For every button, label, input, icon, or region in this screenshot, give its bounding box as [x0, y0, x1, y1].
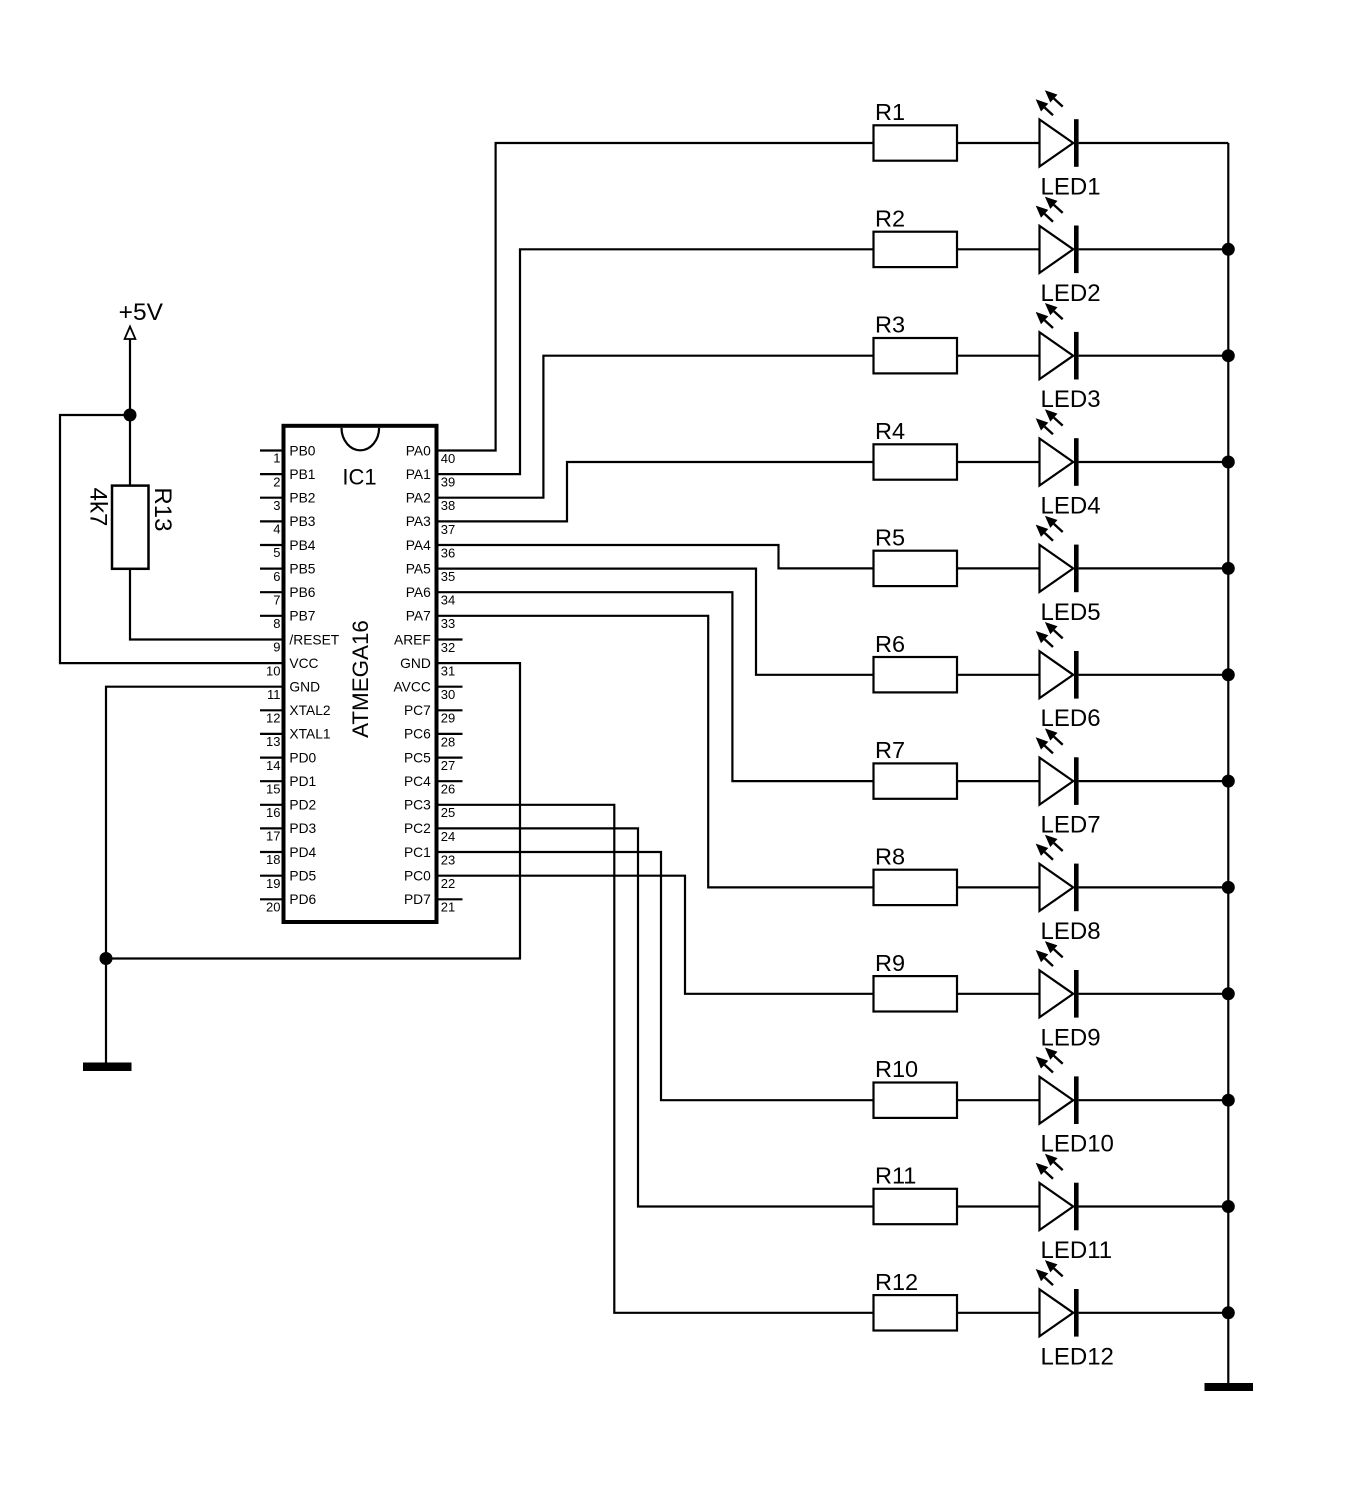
svg-text:24: 24	[441, 829, 455, 844]
IC1 pin 38 (PA2) stub, number and label	[406, 491, 456, 514]
node bus junction row 5	[1222, 562, 1235, 575]
svg-text:LED12: LED12	[1041, 1343, 1114, 1370]
IC1 pin 35 (PA5) stub, number and label	[406, 561, 456, 584]
wire R1 to LED1	[957, 142, 1040, 144]
LED LED2	[1036, 197, 1101, 307]
wire PA5 pin 35 to R6	[437, 569, 874, 675]
wire R8 to LED8	[957, 886, 1040, 888]
LED LED8	[1036, 835, 1101, 945]
svg-text:29: 29	[441, 711, 455, 726]
wire R13 bottom to /RESET pin 9	[130, 569, 284, 640]
svg-text:12: 12	[266, 711, 280, 726]
node bus junction row 6	[1222, 668, 1235, 681]
LED LED10	[1036, 1048, 1114, 1158]
wire R3 to LED3	[957, 355, 1040, 357]
resistor R8	[874, 843, 958, 905]
node bus junction row 2	[1222, 243, 1235, 256]
IC1 pin 16 (PD2) stub, number and label	[260, 798, 316, 820]
resistor R11	[874, 1163, 958, 1225]
IC1 pin 21 (PD7) stub, number and label	[404, 892, 463, 915]
svg-text:2: 2	[273, 474, 280, 489]
wire R9 to LED9	[957, 993, 1040, 995]
wire LED5 cathode to bus	[1079, 567, 1229, 569]
svg-text:R13: R13	[149, 487, 176, 531]
IC1 pin 18 (PD4) stub, number and label	[260, 845, 317, 867]
wire R12 to LED12	[957, 1312, 1040, 1314]
svg-text:13: 13	[266, 734, 280, 749]
IC1 pin 31 (GND) stub, number and label	[400, 656, 455, 679]
node +5V junction	[124, 409, 137, 422]
svg-text:PA3: PA3	[406, 514, 431, 529]
svg-text:15: 15	[266, 781, 280, 796]
wire LED4 cathode to bus	[1079, 461, 1229, 463]
svg-text:R8: R8	[875, 843, 905, 869]
IC IC1 (ATMEGA16) body with notch and labels	[284, 426, 437, 922]
svg-text:10: 10	[266, 663, 280, 678]
svg-text:18: 18	[266, 852, 280, 867]
wire LED10 cathode to bus	[1079, 1099, 1229, 1101]
wire GND pin 31 loop to ground junction	[106, 663, 520, 958]
IC1 pin 28 (PC6) stub, number and label	[404, 727, 463, 750]
IC1 pin 33 (PA7) stub, number and label	[406, 609, 456, 632]
svg-text:XTAL2: XTAL2	[289, 703, 330, 718]
wire PA3 pin 37 to R4	[437, 462, 874, 521]
svg-text:R3: R3	[875, 312, 905, 338]
svg-text:PB4: PB4	[289, 538, 315, 553]
svg-text:PD7: PD7	[404, 892, 431, 907]
svg-text:PC2: PC2	[404, 821, 431, 836]
IC1 pin 1 (PB0) stub, number and label	[260, 443, 316, 465]
wire PC3 pin 25 to R12	[437, 805, 874, 1313]
IC1 pin 15 (PD1) stub, number and label	[260, 774, 316, 796]
svg-text:LED4: LED4	[1041, 493, 1101, 520]
resistor R10	[874, 1056, 958, 1118]
node bus junction row 10	[1222, 1094, 1235, 1107]
svg-text:30: 30	[441, 687, 455, 702]
svg-text:PC7: PC7	[404, 703, 431, 718]
resistor R6	[874, 631, 958, 693]
resistor R5	[874, 524, 958, 586]
svg-text:R6: R6	[875, 631, 905, 657]
IC1 pin 4 (PB3) stub, number and label	[260, 514, 316, 536]
wire PA4 pin 36 to R5	[437, 545, 874, 568]
wire LED9 cathode to bus	[1079, 993, 1229, 995]
svg-text:R1: R1	[875, 99, 905, 125]
svg-text:PB2: PB2	[289, 491, 315, 506]
IC1 pin 12 (XTAL2) stub, number and label	[260, 703, 331, 725]
IC1 pin 25 (PC3) stub, number and label	[404, 798, 455, 821]
svg-text:LED5: LED5	[1041, 599, 1101, 626]
svg-text:PB7: PB7	[289, 609, 315, 624]
svg-text:PA0: PA0	[406, 443, 431, 458]
svg-text:LED2: LED2	[1041, 280, 1101, 307]
IC1 pin 26 (PC4) stub, number and label	[404, 774, 463, 797]
wire +5V to junction	[129, 339, 131, 415]
wire PA0 pin 40 to R1	[437, 143, 874, 451]
IC1 pin 36 (PA4) stub, number and label	[406, 538, 456, 561]
wire PC1 pin 23 to R10	[437, 852, 874, 1100]
svg-text:R7: R7	[875, 737, 905, 763]
svg-text:PA6: PA6	[406, 585, 431, 600]
svg-text:LED8: LED8	[1041, 918, 1101, 945]
svg-text:PD5: PD5	[289, 869, 316, 884]
IC1 pin 32 (AREF) stub, number and label	[394, 632, 462, 655]
svg-text:31: 31	[441, 664, 455, 679]
svg-text:LED3: LED3	[1041, 386, 1101, 413]
svg-text:36: 36	[441, 545, 455, 560]
svg-text:PB6: PB6	[289, 585, 315, 600]
svg-text:35: 35	[441, 569, 455, 584]
svg-text:28: 28	[441, 734, 455, 749]
svg-text:26: 26	[441, 782, 455, 797]
IC1 pin 20 (PD6) stub, number and label	[260, 892, 317, 914]
wire R2 to LED2	[957, 248, 1040, 250]
svg-text:R2: R2	[875, 205, 905, 231]
wire R6 to LED6	[957, 674, 1040, 676]
IC1 pin 24 (PC2) stub, number and label	[404, 821, 455, 844]
IC1 pin 10 (VCC) stub, number and label	[266, 656, 319, 678]
svg-text:23: 23	[441, 852, 455, 867]
svg-text:37: 37	[441, 522, 455, 537]
wire LED1 cathode to bus	[1079, 142, 1229, 144]
svg-text:PB3: PB3	[289, 514, 315, 529]
svg-text:R10: R10	[875, 1056, 918, 1082]
ground symbol right	[1205, 1383, 1254, 1391]
wire PC0 pin 22 to R9	[437, 876, 874, 994]
svg-text:19: 19	[266, 876, 280, 891]
svg-text:IC1: IC1	[342, 465, 376, 490]
wire GND pin 11 down to ground	[106, 687, 284, 1063]
IC1 pin 22 (PC0) stub, number and label	[404, 869, 455, 892]
svg-text:R11: R11	[875, 1163, 916, 1189]
node bus junction row 7	[1222, 775, 1235, 788]
svg-text:PA5: PA5	[406, 561, 431, 576]
svg-text:ATMEGA16: ATMEGA16	[348, 620, 373, 738]
svg-text:PD6: PD6	[289, 892, 316, 907]
wire LED7 cathode to bus	[1079, 780, 1229, 782]
resistor R2	[874, 205, 958, 267]
resistor R12	[874, 1269, 958, 1331]
node bus junction row 8	[1222, 881, 1235, 894]
svg-text:AVCC: AVCC	[393, 680, 430, 695]
svg-text:LED6: LED6	[1041, 705, 1101, 732]
svg-text:LED1: LED1	[1041, 174, 1101, 201]
svg-text:R12: R12	[875, 1269, 918, 1295]
svg-text:3: 3	[273, 498, 280, 513]
node bus junction row 12	[1222, 1306, 1235, 1319]
svg-text:PC5: PC5	[404, 750, 431, 765]
svg-text:PA4: PA4	[406, 538, 431, 553]
IC1 pin 3 (PB2) stub, number and label	[260, 491, 315, 513]
IC1 pin 34 (PA6) stub, number and label	[406, 585, 456, 608]
svg-text:LED9: LED9	[1041, 1024, 1101, 1051]
svg-text:25: 25	[441, 805, 455, 820]
IC1 pin 5 (PB4) stub, number and label	[260, 538, 316, 560]
wire PA1 pin 39 to R2	[437, 249, 874, 474]
svg-text:11: 11	[267, 687, 281, 702]
svg-text:40: 40	[441, 451, 455, 466]
IC1 pin 30 (AVCC) stub, number and label	[393, 680, 462, 703]
svg-text:PA7: PA7	[406, 609, 431, 624]
svg-text:PC0: PC0	[404, 869, 431, 884]
IC1 pin 37 (PA3) stub, number and label	[406, 514, 456, 537]
svg-text:17: 17	[266, 829, 280, 844]
LED LED12	[1036, 1260, 1114, 1370]
svg-text:PD0: PD0	[289, 750, 316, 765]
wire LED2 cathode to bus	[1079, 248, 1229, 250]
svg-text:GND: GND	[289, 680, 320, 695]
svg-text:PC1: PC1	[404, 845, 431, 860]
svg-text:PA2: PA2	[406, 491, 431, 506]
svg-text:27: 27	[441, 758, 455, 773]
LED LED11	[1036, 1154, 1112, 1264]
resistor R1	[874, 99, 958, 161]
svg-text:9: 9	[273, 640, 280, 655]
IC1 pin 29 (PC7) stub, number and label	[404, 703, 463, 726]
svg-text:R5: R5	[875, 524, 905, 550]
svg-text:4k7: 4k7	[85, 488, 112, 527]
+5V supply symbol	[119, 299, 164, 339]
resistor R9	[874, 950, 958, 1012]
wire PA2 pin 38 to R3	[437, 356, 874, 498]
wire R11 to LED11	[957, 1205, 1040, 1207]
svg-text:PC4: PC4	[404, 774, 431, 789]
resistor R4	[874, 418, 958, 480]
svg-text:14: 14	[266, 758, 280, 773]
svg-text:PB1: PB1	[289, 467, 315, 482]
svg-text:5: 5	[273, 545, 280, 560]
svg-text:PB5: PB5	[289, 561, 315, 576]
LED LED4	[1036, 409, 1101, 519]
ground symbol left	[83, 1063, 132, 1072]
svg-text:XTAL1: XTAL1	[289, 727, 330, 742]
wire cathode bus vertical	[1227, 143, 1229, 1383]
svg-text:GND: GND	[400, 656, 431, 671]
svg-text:VCC: VCC	[289, 656, 318, 671]
IC1 pin 8 (PB7) stub, number and label	[260, 609, 315, 631]
resistor R3	[874, 312, 958, 374]
IC1 pin 39 (PA1) stub, number and label	[406, 467, 456, 490]
svg-text:PD2: PD2	[289, 798, 316, 813]
svg-text:1: 1	[273, 451, 280, 466]
IC1 pin 11 (GND) stub, number and label	[267, 680, 320, 702]
wire LED11 cathode to bus	[1079, 1205, 1229, 1207]
svg-text:6: 6	[273, 569, 280, 584]
LED LED7	[1036, 728, 1101, 838]
svg-text:R4: R4	[875, 418, 905, 444]
IC1 pin 19 (PD5) stub, number and label	[260, 869, 317, 891]
svg-text:LED7: LED7	[1041, 812, 1101, 839]
LED LED3	[1036, 303, 1101, 413]
svg-text:PD4: PD4	[289, 845, 316, 860]
svg-text:8: 8	[273, 616, 280, 631]
IC1 pin 7 (PB6) stub, number and label	[260, 585, 316, 607]
svg-text:LED10: LED10	[1041, 1131, 1114, 1158]
wire +5V junction to VCC pin 10	[60, 415, 284, 663]
svg-text:7: 7	[273, 592, 280, 607]
svg-text:R9: R9	[875, 950, 905, 976]
resistor R7	[874, 737, 958, 799]
wire R5 to LED5	[957, 567, 1040, 569]
svg-text:PD1: PD1	[289, 774, 316, 789]
node ground junction	[100, 952, 113, 965]
IC1 pin 27 (PC5) stub, number and label	[404, 750, 463, 773]
svg-text:+5V: +5V	[119, 299, 164, 326]
node bus junction row 4	[1222, 456, 1235, 469]
IC1 pin 9 (/RESET) stub, number and label	[273, 632, 340, 654]
svg-text:21: 21	[441, 900, 455, 915]
svg-text:PD3: PD3	[289, 821, 316, 836]
wire LED8 cathode to bus	[1079, 886, 1229, 888]
wire LED3 cathode to bus	[1079, 355, 1229, 357]
svg-text:22: 22	[441, 876, 455, 891]
node bus junction row 11	[1222, 1200, 1235, 1213]
svg-text:AREF: AREF	[394, 632, 431, 647]
LED LED9	[1036, 941, 1101, 1051]
wire R4 to LED4	[957, 461, 1040, 463]
wire LED6 cathode to bus	[1079, 674, 1229, 676]
LED LED6	[1036, 622, 1101, 732]
wire PA6 pin 34 to R7	[437, 592, 874, 781]
svg-text:38: 38	[441, 498, 455, 513]
wire junction to R13 top	[129, 415, 131, 486]
svg-text:/RESET: /RESET	[289, 632, 339, 647]
wire R10 to LED10	[957, 1099, 1040, 1101]
svg-text:32: 32	[441, 640, 455, 655]
svg-text:LED11: LED11	[1041, 1237, 1113, 1264]
IC1 pin 2 (PB1) stub, number and label	[260, 467, 315, 489]
svg-text:33: 33	[441, 616, 455, 631]
IC1 pin 40 (PA0) stub, number and label	[406, 443, 456, 466]
node bus junction row 9	[1222, 987, 1235, 1000]
LED LED1	[1036, 90, 1101, 200]
IC1 pin 23 (PC1) stub, number and label	[404, 845, 455, 868]
svg-text:4: 4	[273, 522, 280, 537]
wire R7 to LED7	[957, 780, 1040, 782]
LED LED5	[1036, 516, 1101, 626]
IC1 pin 13 (XTAL1) stub, number and label	[260, 727, 331, 749]
svg-text:34: 34	[441, 593, 455, 608]
svg-text:PB0: PB0	[289, 443, 315, 458]
svg-text:39: 39	[441, 475, 455, 490]
svg-text:20: 20	[266, 900, 280, 915]
resistor R13	[85, 486, 177, 569]
IC1 pin 6 (PB5) stub, number and label	[260, 561, 316, 583]
node bus junction row 3	[1222, 349, 1235, 362]
wire PA7 pin 33 to R8	[437, 616, 874, 888]
svg-text:PA1: PA1	[406, 467, 431, 482]
svg-text:PC3: PC3	[404, 798, 431, 813]
IC1 pin 17 (PD3) stub, number and label	[260, 821, 317, 843]
wire PC2 pin 24 to R11	[437, 828, 874, 1206]
IC1 pin 14 (PD0) stub, number and label	[260, 750, 317, 772]
svg-text:16: 16	[266, 805, 280, 820]
wire LED12 cathode to bus	[1079, 1312, 1229, 1314]
svg-text:PC6: PC6	[404, 727, 431, 742]
